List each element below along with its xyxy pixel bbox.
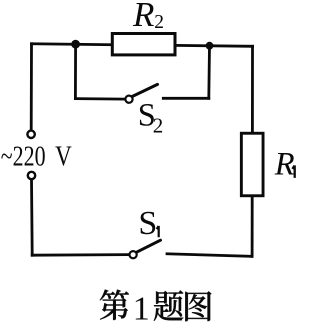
svg-text:S: S — [138, 205, 157, 242]
terminal lower (source) — [28, 172, 35, 179]
wire S2-branch right vertical — [207, 46, 210, 99]
wire S2-branch left vertical — [74, 44, 77, 98]
wire right vertical lower — [251, 197, 254, 257]
wire top-left — [32, 42, 113, 46]
svg-text:R: R — [274, 147, 295, 183]
switch S2 — [125, 84, 157, 102]
wire S2-branch left horizontal — [75, 97, 125, 100]
resistor R2 — [112, 34, 175, 55]
svg-text:V: V — [55, 142, 72, 173]
caption: 题 — [154, 290, 184, 321]
wire top-right — [175, 44, 253, 48]
node junction left — [71, 40, 80, 49]
wire S2-branch right horizontal — [163, 97, 209, 100]
switch S1 — [130, 240, 161, 258]
svg-text:2: 2 — [153, 113, 164, 137]
caption: 图 — [185, 291, 211, 321]
wire bottom left — [32, 253, 129, 256]
svg-text:1: 1 — [133, 291, 150, 328]
resistor R1 — [241, 133, 263, 196]
caption: 第 — [100, 290, 212, 328]
wire left vertical lower — [30, 179, 34, 255]
svg-text:~220: ~220 — [1, 142, 46, 173]
node junction right — [206, 42, 214, 50]
svg-text:2: 2 — [154, 12, 164, 33]
wire right vertical upper — [251, 46, 254, 133]
wire left vertical upper — [30, 44, 33, 131]
svg-text:R: R — [132, 0, 154, 34]
terminal upper (source) — [27, 131, 34, 138]
wire bottom right — [167, 254, 252, 256]
